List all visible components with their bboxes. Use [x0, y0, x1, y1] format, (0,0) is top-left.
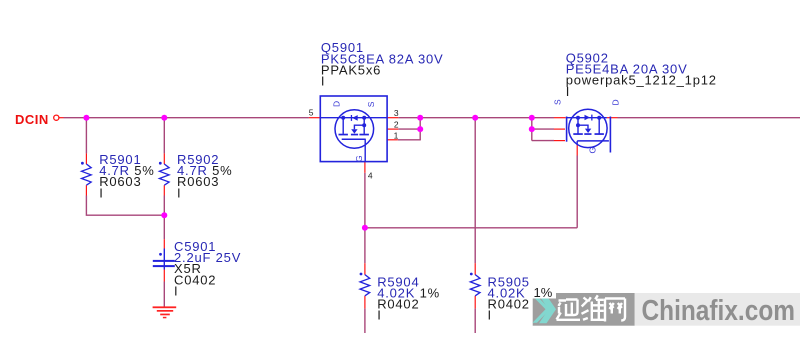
svg-text:1%: 1%: [534, 285, 553, 300]
svg-text:I: I: [99, 185, 103, 200]
svg-text:PPAK5x6: PPAK5x6: [321, 63, 381, 78]
svg-text:I: I: [174, 283, 178, 298]
svg-text:3: 3: [394, 108, 399, 118]
svg-text:powerpak5_1212_1p12: powerpak5_1212_1p12: [566, 73, 717, 88]
svg-text:D: D: [610, 99, 620, 105]
svg-text:R0402: R0402: [488, 297, 530, 312]
svg-text:4: 4: [368, 171, 373, 181]
svg-text:I: I: [321, 74, 325, 89]
svg-text:2: 2: [394, 119, 399, 129]
svg-text:S: S: [553, 99, 563, 105]
svg-text:DCIN: DCIN: [15, 112, 49, 127]
svg-text:D: D: [332, 101, 342, 107]
svg-text:I: I: [177, 185, 181, 200]
svg-text:Chinafix.com: Chinafix.com: [642, 295, 796, 327]
svg-text:C0402: C0402: [174, 272, 216, 287]
svg-text:I: I: [488, 308, 492, 323]
svg-text:5: 5: [309, 108, 314, 118]
svg-text:R0603: R0603: [99, 174, 141, 189]
svg-text:S: S: [366, 101, 376, 107]
svg-text:G: G: [587, 147, 597, 154]
svg-text:1: 1: [394, 130, 399, 140]
svg-text:R0402: R0402: [377, 297, 419, 312]
svg-text:G: G: [354, 155, 364, 162]
svg-text:I: I: [377, 308, 381, 323]
svg-text:R0603: R0603: [177, 174, 219, 189]
svg-text:I: I: [566, 84, 570, 99]
